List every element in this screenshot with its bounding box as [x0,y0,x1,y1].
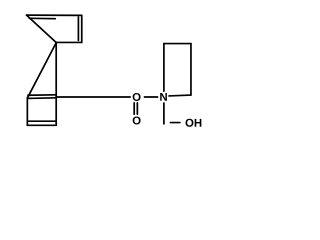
wire: bottom ring bottom inner double-bond line [28,120,55,122]
wire: top ring inner double-bond line [29,17,55,19]
wire: bottom ring top inner double-bond line [27,97,56,100]
node: hydroxyl O of OH label [186,119,194,127]
wire: bond O to N [144,96,157,98]
wire: top ring diagonal bond A-D [27,15,57,42]
wire: bottom ring bottom edge bond [27,124,56,126]
node: ester oxygen atom label O [133,93,141,101]
node: ring nitrogen atom label N [160,93,167,101]
wire: bond N down to CH2 [163,103,165,124]
wire: bond CH2 to OH [170,122,180,124]
wire: carbonyl C=O double bond right line [136,103,138,114]
node: carbonyl oxygen atom label O [133,116,141,124]
wire: ring top edge bond [164,43,191,45]
wire: long chain bond to ester O [56,96,130,98]
wire: ring bottom edge bond to N [169,94,191,97]
wire: ring left edge bond N up [163,44,165,92]
wire: top ring right inner double-bond line [77,17,79,41]
wire: top ring bottom edge bond [56,41,82,43]
wire: carbonyl C=O double bond left line [133,103,135,114]
wire: top ring right edge bond [81,15,83,42]
wire: diagonal bond apex to bottom ring top-left [28,43,57,98]
wire: ring right edge bond [190,44,192,96]
wire: top ring upper edge bond [27,14,82,16]
wire: bottom ring left edge bond [26,97,28,125]
node: hydroxyl H of OH label [195,119,202,127]
wire: vertical bond apex to bottom ring right edge [55,42,57,125]
wire: bottom ring top edge bond [28,94,56,96]
